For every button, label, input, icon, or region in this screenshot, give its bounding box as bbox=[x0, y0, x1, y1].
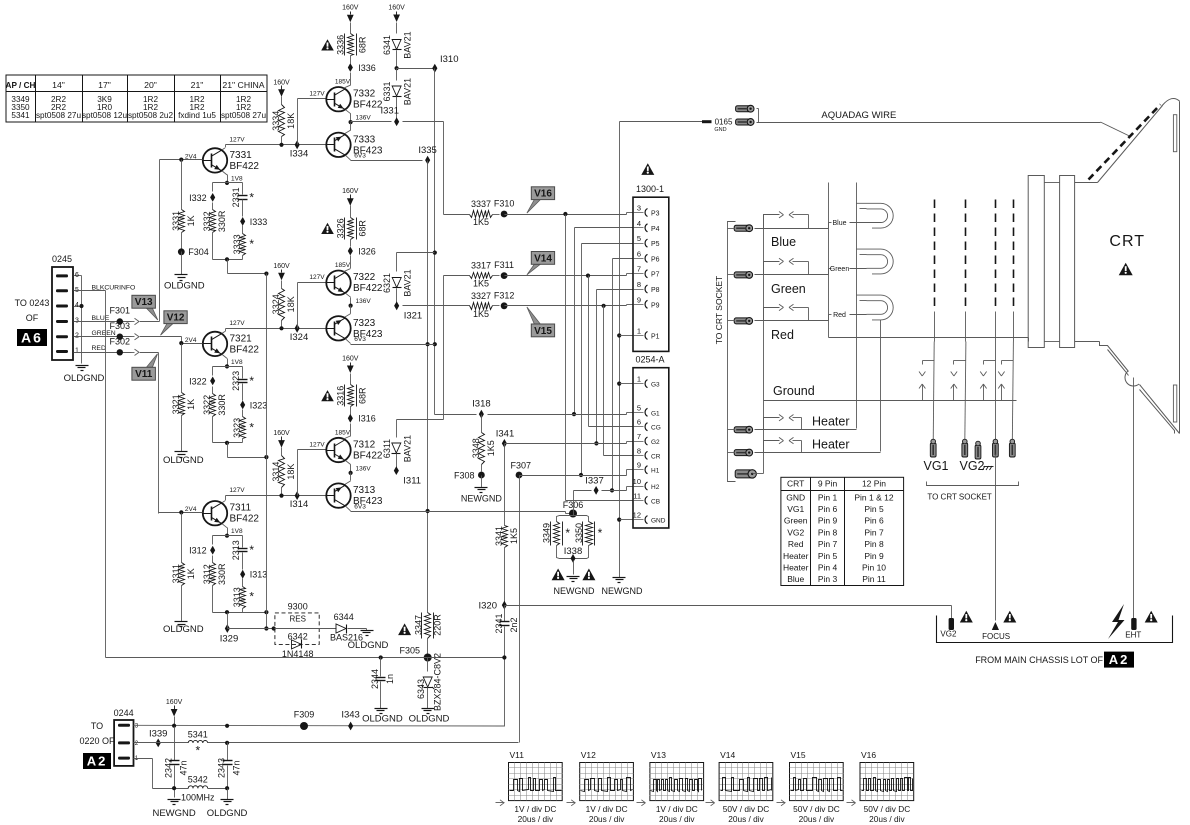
label Heater bbox=[812, 438, 850, 452]
wire collector bbox=[222, 329, 226, 334]
svg-text:50V / div DC: 50V / div DC bbox=[793, 804, 840, 814]
spark gap electrode bbox=[980, 361, 995, 401]
waveform V16 bbox=[847, 750, 914, 824]
fuse F304 bbox=[178, 247, 209, 257]
ground OLDGND bbox=[207, 789, 248, 820]
wire 136V node bbox=[345, 110, 372, 134]
wire collector bbox=[222, 496, 226, 503]
svg-text:7331: 7331 bbox=[230, 150, 253, 161]
wire F307 down bbox=[519, 476, 521, 743]
svg-text:Pin 6: Pin 6 bbox=[864, 516, 884, 526]
wire ch2 6V3 bbox=[351, 344, 435, 346]
svg-text:17": 17" bbox=[98, 80, 111, 90]
svg-text:G3: G3 bbox=[651, 382, 660, 389]
svg-text:3331: 3331 bbox=[171, 211, 181, 231]
svg-text:7333: 7333 bbox=[353, 134, 376, 145]
callout V13 bbox=[132, 295, 158, 320]
svg-text:Heater: Heater bbox=[812, 438, 850, 452]
pin 5 of 0245 bbox=[56, 284, 135, 294]
svg-text:127V: 127V bbox=[309, 91, 325, 98]
wire rail to upper base bbox=[298, 442, 327, 496]
svg-text:OLDGND: OLDGND bbox=[163, 624, 204, 635]
svg-text:21" CHINA: 21" CHINA bbox=[222, 80, 264, 90]
svg-text:6311: 6311 bbox=[382, 439, 392, 458]
node base junction bbox=[179, 341, 183, 345]
svg-text:6341: 6341 bbox=[382, 35, 392, 55]
pin G1 of 0254-A bbox=[634, 403, 661, 417]
label Green bbox=[771, 282, 806, 296]
svg-text:10: 10 bbox=[633, 477, 641, 486]
svg-text:3313: 3313 bbox=[232, 587, 242, 607]
wire ground net bbox=[617, 122, 703, 578]
svg-text:5: 5 bbox=[637, 403, 641, 412]
pin CR of 0254-A bbox=[634, 446, 661, 460]
svg-text:20us / div: 20us / div bbox=[589, 814, 625, 824]
svg-text:F304: F304 bbox=[188, 247, 209, 257]
svg-text:I320: I320 bbox=[479, 600, 498, 611]
wire emitter bbox=[222, 171, 243, 183]
svg-text:RED: RED bbox=[92, 345, 106, 352]
svg-text:Green: Green bbox=[830, 266, 850, 273]
svg-text:Green: Green bbox=[784, 516, 808, 526]
plug Red cathode bbox=[728, 318, 753, 325]
svg-text:AQUADAG WIRE: AQUADAG WIRE bbox=[821, 110, 896, 121]
svg-text:OLDGND: OLDGND bbox=[163, 455, 204, 466]
svg-text:OLDGND: OLDGND bbox=[362, 714, 403, 725]
svg-text:TO CRT SOCKET: TO CRT SOCKET bbox=[927, 493, 992, 502]
table chassis variants bbox=[6, 75, 268, 123]
wire F311 to P7 bbox=[505, 274, 634, 278]
gun heater Green bbox=[856, 249, 893, 274]
eht anode button bbox=[1125, 371, 1139, 621]
svg-text:136V: 136V bbox=[356, 115, 372, 122]
svg-text:3348: 3348 bbox=[471, 438, 481, 458]
svg-text:136V: 136V bbox=[356, 465, 372, 472]
node 6341-6331 junction bbox=[395, 66, 399, 70]
diode 6344 BAS216 bbox=[330, 612, 367, 643]
wire P4 to G1 net bbox=[572, 228, 634, 417]
svg-text:6331: 6331 bbox=[382, 81, 392, 101]
fuse F301 bbox=[110, 306, 131, 325]
wire bbox=[242, 410, 244, 417]
svg-text:100MHz: 100MHz bbox=[181, 793, 215, 803]
wire rail to upper base bbox=[298, 91, 327, 145]
wire electrode down bbox=[933, 342, 934, 444]
svg-text:6V3: 6V3 bbox=[354, 336, 366, 343]
wire F307 to H1 bbox=[520, 470, 634, 476]
wire 6V3 bus bbox=[426, 161, 430, 613]
label CRT bbox=[1109, 233, 1145, 250]
svg-text:1V8: 1V8 bbox=[231, 175, 243, 182]
svg-text:A2: A2 bbox=[1109, 652, 1130, 667]
panel tag A6 bbox=[17, 329, 47, 346]
svg-text:3321: 3321 bbox=[171, 394, 181, 414]
svg-text:OLDGND: OLDGND bbox=[348, 640, 389, 651]
connector 1300-1 bbox=[633, 184, 669, 351]
svg-text:VG1: VG1 bbox=[787, 504, 804, 514]
panel tag A2 bbox=[1104, 652, 1134, 668]
wire neck top bbox=[1045, 182, 1098, 184]
svg-text:*: * bbox=[249, 590, 254, 604]
svg-text:GND: GND bbox=[714, 127, 726, 133]
svg-text:330R: 330R bbox=[217, 394, 227, 416]
wire ch3 6V3 to F306 bbox=[351, 512, 574, 514]
crt neck ring 2 bbox=[1060, 176, 1075, 348]
svg-text:0254-A: 0254-A bbox=[635, 355, 664, 365]
svg-text:H2: H2 bbox=[651, 484, 660, 491]
label 127V bbox=[229, 136, 245, 143]
svg-text:160V: 160V bbox=[273, 430, 290, 437]
svg-text:47n: 47n bbox=[232, 760, 242, 775]
wire BLUE bbox=[74, 318, 160, 324]
svg-text:I329: I329 bbox=[220, 634, 239, 645]
wire I329 bus bbox=[228, 623, 276, 631]
svg-text:6342: 6342 bbox=[288, 632, 308, 642]
svg-text:1K5: 1K5 bbox=[509, 528, 519, 544]
svg-text:I343: I343 bbox=[341, 710, 360, 721]
svg-text:BF422: BF422 bbox=[353, 451, 383, 462]
svg-text:12: 12 bbox=[633, 511, 641, 520]
wire F304 to ground bbox=[181, 252, 183, 275]
capacitor 2343 47n bbox=[217, 743, 242, 789]
svg-text:5: 5 bbox=[637, 234, 641, 243]
wire to I310 bbox=[397, 68, 435, 70]
plug ground socket bbox=[735, 470, 763, 478]
capacitor 2342 47n bbox=[164, 727, 189, 798]
wire network bottom bbox=[213, 439, 243, 443]
svg-text:2V4: 2V4 bbox=[185, 337, 197, 344]
node I324 bbox=[290, 324, 309, 343]
svg-text:1V / div DC: 1V / div DC bbox=[514, 804, 556, 814]
svg-text:A2: A2 bbox=[87, 754, 108, 769]
label 127V bbox=[229, 320, 245, 327]
diode 6342 1N4148 bbox=[282, 632, 314, 660]
node base junction bbox=[179, 510, 183, 514]
svg-text:2343: 2343 bbox=[217, 758, 227, 778]
fuse F310 bbox=[494, 199, 515, 218]
resistor 3314 18K bbox=[271, 430, 296, 498]
wire aquadag bbox=[757, 109, 1131, 137]
spark gap Blue bbox=[764, 212, 809, 229]
node I337 bbox=[585, 476, 604, 495]
pin P9 of 1300-1 bbox=[634, 295, 660, 309]
ground OLDGND bbox=[163, 622, 204, 636]
svg-text:9: 9 bbox=[637, 461, 641, 470]
wire bbox=[212, 586, 214, 613]
terminal FOCUS bbox=[982, 622, 1010, 641]
svg-text:NEWGND: NEWGND bbox=[554, 586, 595, 596]
wire neck bottom bbox=[1029, 338, 1100, 342]
label Heater bbox=[812, 415, 850, 429]
svg-text:F303: F303 bbox=[110, 321, 131, 331]
svg-text:GND: GND bbox=[651, 518, 666, 525]
svg-text:I335: I335 bbox=[418, 145, 437, 156]
svg-text:7321: 7321 bbox=[230, 333, 253, 344]
svg-text:1K: 1K bbox=[186, 568, 196, 579]
svg-text:BLUE: BLUE bbox=[92, 315, 110, 322]
svg-text:RES: RES bbox=[289, 615, 305, 624]
svg-text:18K: 18K bbox=[286, 296, 296, 312]
svg-text:F306: F306 bbox=[563, 500, 584, 510]
svg-text:2341: 2341 bbox=[494, 613, 504, 633]
svg-text:I326: I326 bbox=[358, 246, 376, 256]
node I331 bbox=[381, 106, 400, 127]
svg-text:I333: I333 bbox=[250, 217, 268, 227]
ground OLDGND under 0245 bbox=[64, 366, 105, 385]
svg-text:1V8: 1V8 bbox=[231, 359, 243, 366]
wire VG2 feedback line bbox=[505, 605, 952, 607]
svg-text:F307: F307 bbox=[511, 460, 532, 470]
resistor 3313 bbox=[232, 587, 254, 609]
svg-text:I314: I314 bbox=[290, 499, 309, 510]
svg-text:V12: V12 bbox=[167, 313, 185, 324]
svg-text:8: 8 bbox=[637, 280, 641, 289]
svg-text:BF422: BF422 bbox=[353, 100, 383, 111]
node I313 bbox=[240, 570, 267, 580]
svg-text:6: 6 bbox=[637, 418, 641, 427]
transistor 7331 bbox=[185, 148, 259, 172]
plug VG pin bbox=[962, 439, 968, 457]
wire I318 to G1 bbox=[488, 413, 634, 415]
pin H2 of 0254-A bbox=[633, 477, 660, 491]
svg-text:3322: 3322 bbox=[202, 395, 212, 415]
svg-text:1K: 1K bbox=[186, 399, 196, 410]
svg-text:A6: A6 bbox=[21, 330, 43, 346]
svg-text:F309: F309 bbox=[294, 710, 315, 720]
pin GND of 0254-A bbox=[633, 511, 666, 525]
resistor 3331 1K bbox=[171, 210, 196, 233]
svg-text:spt0508 12u: spt0508 12u bbox=[82, 111, 128, 120]
svg-text:I337: I337 bbox=[585, 476, 604, 487]
svg-text:9: 9 bbox=[637, 295, 641, 304]
svg-text:3341: 3341 bbox=[494, 526, 504, 546]
svg-text:Blue: Blue bbox=[771, 235, 796, 249]
svg-text:NEWGND: NEWGND bbox=[152, 808, 195, 819]
spark gap heater bbox=[764, 437, 802, 452]
wire emitter bbox=[222, 354, 243, 366]
panel tag A2 bbox=[83, 753, 111, 769]
svg-text:0245: 0245 bbox=[52, 254, 72, 264]
svg-text:F302: F302 bbox=[110, 337, 131, 347]
node 1V8 bbox=[225, 534, 229, 538]
wire I341 down bbox=[504, 444, 506, 526]
svg-text:0165: 0165 bbox=[715, 118, 733, 127]
pin G3 of 0254-A bbox=[634, 375, 661, 389]
svg-text:1n: 1n bbox=[385, 674, 395, 684]
pin P7 of 1300-1 bbox=[634, 265, 660, 279]
svg-text:I313: I313 bbox=[250, 570, 268, 580]
svg-text:Red: Red bbox=[788, 539, 804, 549]
pin 1 of 0245 bbox=[56, 345, 106, 355]
svg-text:V14: V14 bbox=[534, 253, 552, 264]
wire 6V3 ch1 bbox=[351, 160, 423, 162]
svg-text:1V8: 1V8 bbox=[231, 528, 243, 535]
crt grid electrode dashed bbox=[1013, 200, 1015, 342]
svg-text:fxdind 1u5: fxdind 1u5 bbox=[178, 111, 216, 120]
svg-text:2313: 2313 bbox=[231, 540, 241, 560]
svg-text:Red: Red bbox=[833, 312, 846, 319]
waveform V11 bbox=[496, 750, 563, 824]
svg-text:160V: 160V bbox=[342, 356, 359, 363]
svg-text:TO CRT SOCKET: TO CRT SOCKET bbox=[714, 276, 724, 345]
crt grid electrode dashed bbox=[965, 200, 967, 342]
wire bus through 9300 bbox=[275, 628, 337, 630]
capacitor 2331 bbox=[231, 187, 254, 216]
resistor 3347 220R bbox=[414, 613, 443, 658]
svg-text:21": 21" bbox=[191, 80, 204, 90]
svg-text:3312: 3312 bbox=[202, 564, 212, 584]
svg-text:F308: F308 bbox=[454, 471, 475, 481]
svg-text:2: 2 bbox=[135, 740, 139, 747]
svg-text:F311: F311 bbox=[494, 260, 514, 270]
wire drain bar extension bbox=[243, 610, 269, 614]
wire base bbox=[160, 159, 203, 161]
connector 0245 bbox=[52, 254, 73, 360]
svg-text:330R: 330R bbox=[217, 563, 227, 585]
svg-text:3317: 3317 bbox=[471, 261, 491, 271]
wire Red to gun bbox=[755, 312, 867, 321]
svg-text:220R: 220R bbox=[433, 614, 443, 636]
svg-text:V16: V16 bbox=[861, 750, 876, 760]
transistor 7311 bbox=[185, 501, 259, 525]
warning triangle bbox=[960, 611, 973, 623]
transistor 7321 bbox=[185, 332, 259, 356]
svg-text:1K5: 1K5 bbox=[473, 217, 489, 227]
diode 6341 BAV21 bbox=[382, 5, 413, 69]
warning triangle bbox=[1119, 263, 1133, 276]
warning triangle bbox=[641, 163, 654, 175]
svg-text:I341: I341 bbox=[496, 429, 515, 440]
warning triangle bbox=[582, 569, 595, 581]
fuse F307 bbox=[511, 460, 532, 478]
svg-text:20us / div: 20us / div bbox=[869, 814, 905, 824]
diode 6321 BAV21 bbox=[382, 253, 434, 306]
transistor 7312 bbox=[326, 430, 383, 463]
plug Blue cathode bbox=[728, 225, 753, 232]
pin 6 of 0245 bbox=[56, 272, 82, 279]
svg-text:CRT: CRT bbox=[787, 479, 804, 489]
wire pin6 to ground bbox=[81, 276, 83, 364]
terminal VG2 bbox=[940, 618, 957, 639]
diode 6311 BAV21 bbox=[382, 276, 444, 471]
node network drain bbox=[225, 257, 229, 261]
label VG1 VG2 bbox=[923, 459, 984, 473]
svg-text:Pin 3: Pin 3 bbox=[818, 574, 838, 584]
label Ground bbox=[773, 384, 815, 398]
lightning bolt bbox=[1108, 604, 1125, 639]
svg-text:3334: 3334 bbox=[271, 111, 281, 131]
resistor 9300 RES option bbox=[275, 602, 319, 645]
svg-text:I332: I332 bbox=[189, 193, 207, 203]
wire F305 line bbox=[106, 655, 507, 659]
wire pin3 line bbox=[134, 724, 505, 728]
capacitor 2313 bbox=[231, 540, 254, 569]
warning triangle bbox=[1003, 611, 1016, 623]
spark gap Red bbox=[764, 304, 809, 320]
node I316 bbox=[344, 407, 376, 440]
wire bbox=[212, 387, 214, 394]
svg-text:3333: 3333 bbox=[232, 234, 242, 254]
resistor 3333 bbox=[232, 234, 254, 256]
svg-text:F301: F301 bbox=[110, 306, 131, 316]
svg-text:7322: 7322 bbox=[353, 272, 376, 283]
wire Blue to gun bbox=[755, 220, 867, 228]
svg-text:1K5: 1K5 bbox=[473, 279, 489, 289]
svg-text:V13: V13 bbox=[135, 297, 153, 308]
node I322 bbox=[189, 376, 215, 386]
node I323 bbox=[240, 400, 267, 410]
svg-text:G1: G1 bbox=[651, 410, 660, 417]
svg-text:I324: I324 bbox=[290, 332, 309, 343]
svg-text:BF422: BF422 bbox=[230, 344, 260, 355]
svg-text:*: * bbox=[565, 526, 570, 540]
svg-text:2342: 2342 bbox=[164, 758, 174, 778]
node I334 bbox=[290, 140, 309, 159]
svg-text:1K5: 1K5 bbox=[473, 309, 489, 319]
node I312 bbox=[189, 546, 215, 556]
svg-text:OLDGND: OLDGND bbox=[164, 280, 205, 291]
node 1V8 bbox=[225, 364, 229, 368]
ground OLDGND bbox=[348, 629, 389, 652]
warning triangle bbox=[321, 390, 334, 401]
pin 2 of 0244 bbox=[118, 740, 139, 747]
warning triangle bbox=[1145, 611, 1158, 623]
svg-text:*: * bbox=[598, 526, 603, 540]
fuse F308 bbox=[454, 471, 485, 481]
svg-text:I322: I322 bbox=[189, 376, 207, 386]
resistor 3350 bbox=[574, 522, 603, 546]
svg-text:V12: V12 bbox=[581, 750, 596, 760]
svg-text:I336: I336 bbox=[358, 63, 376, 73]
svg-text:4: 4 bbox=[75, 302, 79, 309]
svg-text:Ground: Ground bbox=[773, 384, 815, 398]
svg-text:Pin 4: Pin 4 bbox=[818, 563, 838, 573]
pin G2 of 0254-A bbox=[634, 432, 661, 446]
wire 3349-3350 bottom bbox=[557, 546, 589, 559]
svg-text:160V: 160V bbox=[342, 188, 359, 195]
wire resistor to ground bbox=[181, 416, 183, 452]
callout V16 bbox=[527, 187, 555, 213]
svg-text:I321: I321 bbox=[404, 311, 423, 322]
crt grid electrode dashed bbox=[995, 200, 997, 342]
wire drain bus bbox=[264, 274, 268, 631]
svg-text:BAV21: BAV21 bbox=[403, 269, 413, 296]
wire 6V3 output bbox=[346, 339, 351, 344]
svg-text:3337: 3337 bbox=[471, 199, 491, 209]
wire drain bbox=[228, 260, 269, 276]
pin 2 of 0245 bbox=[56, 330, 116, 340]
svg-text:CR: CR bbox=[651, 453, 661, 460]
transistor 7332 bbox=[326, 79, 383, 112]
resistor 3316 68R bbox=[335, 356, 367, 407]
svg-text:7323: 7323 bbox=[353, 318, 376, 329]
svg-text:3323: 3323 bbox=[232, 418, 242, 438]
wire network bottom bbox=[213, 256, 243, 260]
svg-text:3314: 3314 bbox=[271, 462, 281, 482]
resistor 3334 18K bbox=[271, 79, 296, 147]
wire I337 to H2 bbox=[602, 487, 634, 491]
svg-text:3350: 3350 bbox=[574, 523, 584, 543]
node 1V8 bbox=[225, 181, 229, 185]
svg-text:BF422: BF422 bbox=[353, 283, 383, 294]
wire base bbox=[182, 343, 203, 345]
resistor 3322 330R bbox=[202, 394, 227, 417]
svg-text:I323: I323 bbox=[250, 400, 268, 410]
plug VG pin bbox=[1009, 439, 1015, 457]
crt aquadag coating dashed bbox=[1089, 105, 1161, 180]
wire network bottom bbox=[213, 609, 243, 613]
pin 3 of 0244 bbox=[118, 722, 139, 729]
